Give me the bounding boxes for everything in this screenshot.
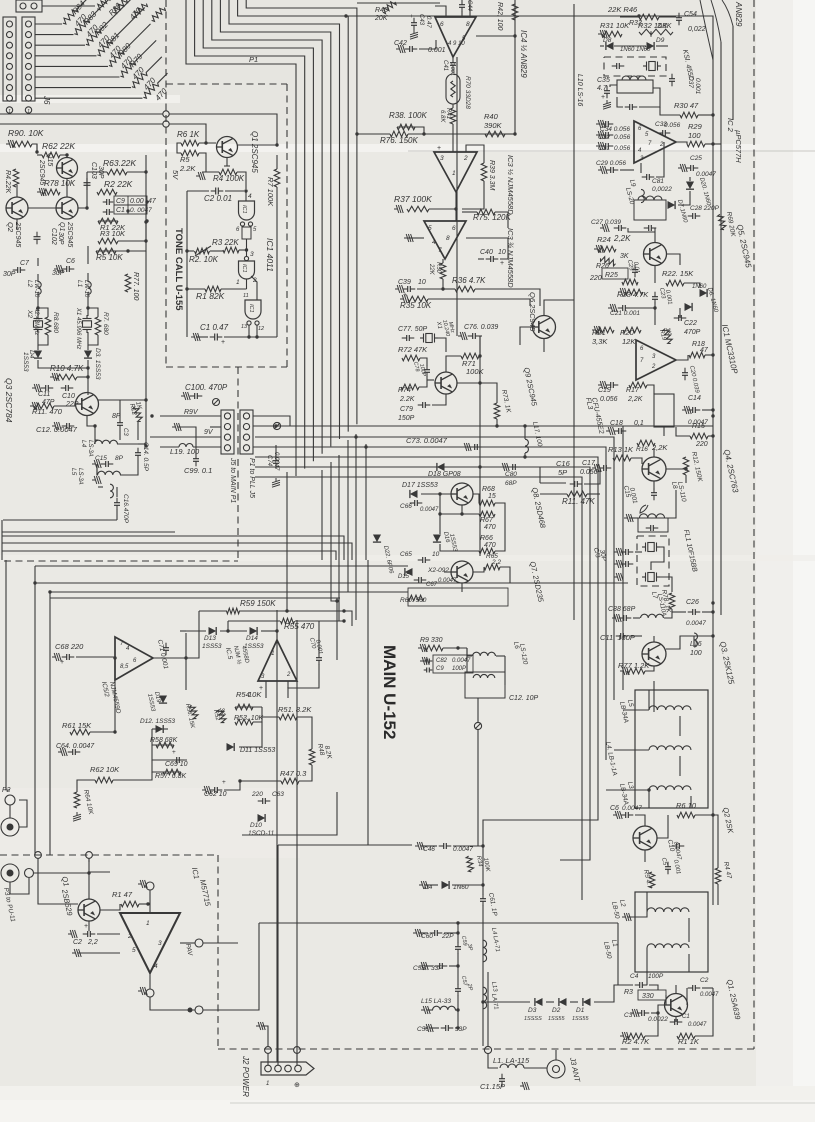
wire osc tank [95,426,98,440]
wire l6b wiring [466,648,468,672]
svg-text:R43: R43 [375,7,388,14]
svg-text:3P: 3P [466,943,473,951]
svg-text:6: 6 [440,21,444,28]
ground R24 [594,245,603,253]
resistor R11 47K [567,491,587,497]
resistor R24 2.2K [598,246,616,252]
ground L15 [421,1006,430,1014]
resistor R7 680 [95,317,101,335]
svg-text:0.056: 0.056 [600,396,618,403]
diode D7b [685,303,693,311]
capacitor C31 0.056 [605,143,607,149]
svg-text:0. 0047: 0. 0047 [130,207,152,214]
connector J6 strip B pin 3 [26,42,32,48]
resistor R5 4.7 [649,872,655,888]
ground C17 [592,464,601,472]
resistor R7 100K vert [274,169,280,187]
ground C13 [614,548,623,556]
svg-text:R30 47: R30 47 [674,101,699,110]
svg-text:R57. 6.8K: R57. 6.8K [155,773,186,780]
connector J6 strip B pin 7 [26,85,32,91]
capacitor C82 box [433,655,473,673]
svg-text:330: 330 [642,993,654,1000]
junction tone left a [185,249,188,252]
svg-text:3: 3 [440,155,444,162]
wire C70 net [318,621,320,654]
ground pa in2 [72,949,81,957]
wire L16 net [666,636,694,649]
ground C100 [181,392,190,400]
ground C1 tone [191,333,200,341]
resistor R13 1K [613,455,631,461]
svg-text:L2: L2 [26,280,33,288]
svg-text:C26: C26 [686,599,699,606]
wire L7 net [630,517,638,519]
svg-text:C22: C22 [684,320,697,327]
svg-text:R50: R50 [435,262,441,274]
wire right bus x721 [720,42,722,615]
svg-text:R3 10K: R3 10K [100,229,126,238]
svg-text:LS-3A: LS-3A [77,468,83,485]
wire center vertical down 6 [365,444,367,560]
wire an829 top nets [396,2,440,4]
resistor R6 1K [181,140,199,146]
capacitor C11 150P [620,633,622,639]
wire L4 net [94,440,96,444]
capacitor C67 0.0047 [418,577,420,583]
capacitor C82 cap [426,659,428,664]
coil box L6b [465,672,505,698]
ground R9 [418,644,427,652]
svg-text:5: 5 [132,947,136,954]
resistor R2 10K pot [195,248,210,254]
junction top bus [344,14,347,17]
resistor R76 150K [390,131,408,137]
ground C29 [598,166,607,174]
svg-text:2.2K: 2.2K [179,164,196,173]
ground L2 tap [622,913,631,921]
capacitor C66 0.0047 [414,500,416,506]
svg-text:D18 GP08: D18 GP08 [428,471,461,478]
diode D4 1SS53 [34,351,42,359]
wire top staircase bus line 7 [238,0,349,432]
ground J2 area [256,1022,265,1030]
svg-text:C1.15P: C1.15P [480,1082,505,1091]
wire audio vert from border circle 1 [37,858,39,880]
wire l9 wiring [620,169,634,171]
svg-text:100: 100 [688,131,701,140]
ground R21 [592,326,601,334]
svg-text:15: 15 [488,493,496,500]
svg-text:0.056: 0.056 [614,145,631,152]
resistor fan 470 #4 [35,55,97,57]
resistor R58 68K [156,742,174,748]
dashed border MAIN unit jog horizontal [4,560,238,562]
wire c56 tap [430,1027,439,1029]
ground C3 [630,1009,639,1017]
svg-text:IC1 4011: IC1 4011 [265,238,275,272]
resistor R40 390K [485,131,505,137]
wire L5 net [97,464,98,475]
svg-text:C100. 470P: C100. 470P [185,383,228,392]
wire d18 net [408,466,432,468]
svg-text:9V: 9V [204,429,214,436]
crystal X1 10.240MHz [420,334,438,343]
svg-text:R9V: R9V [184,409,199,416]
capacitor C39 10 [407,286,409,292]
capacitor C33 0.056 [662,130,664,136]
svg-text:2SC945: 2SC945 [66,221,73,247]
svg-text:0,1: 0,1 [634,420,644,427]
svg-text:R10 4.7K: R10 4.7K [50,364,84,373]
wire p2 link [9,805,11,818]
svg-text:150P: 150P [398,415,415,422]
svg-text:1N60 1N60: 1N60 1N60 [620,47,651,53]
svg-text:10K: 10K [248,690,262,699]
resistor R52 3K diag [217,709,226,722]
connector J5 pin 4 [224,445,230,451]
wire center vertical x515 [514,0,516,134]
svg-text:30P: 30P [57,232,64,245]
svg-text:10: 10 [418,279,426,286]
capacitor C1 0.47 [214,334,216,341]
svg-text:R1 1K: R1 1K [678,1037,700,1046]
capacitor C2 0.01 [215,188,217,195]
svg-text:C2 0.01: C2 0.01 [204,194,232,203]
wire c76 net [480,335,482,337]
ground C46 [415,842,424,850]
resistor R50 22K [440,263,446,279]
ground C60 [413,929,422,937]
wire P1 pin wires [253,416,290,426]
wire d20 net [689,177,691,181]
svg-text:IC4 ½ AN829: IC4 ½ AN829 [519,30,528,78]
svg-text:0.0047: 0.0047 [700,992,719,998]
capacitor C80 68P [512,464,514,470]
transistor Q4 2SC763 [642,457,666,481]
svg-text:Q2: Q2 [6,222,15,233]
resistor R47 0.3 [281,778,299,784]
svg-text:7: 7 [438,247,442,254]
svg-text:C65: C65 [400,551,412,558]
svg-text:1SS55: 1SS55 [572,1016,589,1022]
diode D17 1SS53 [410,490,418,498]
svg-text:L15 LA-33: L15 LA-33 [421,998,451,1005]
connector J6 strip A body [3,17,16,101]
wire ic1 out net [676,355,688,360]
capacitor C70 0.001 [316,657,322,659]
svg-text:C1: C1 [116,207,125,214]
svg-text:TONE CALL U-155: TONE CALL U-155 [173,228,184,311]
svg-text:C46: C46 [423,846,435,853]
diode D12 1SS53 [156,725,164,733]
wire R59 left drop [153,611,199,658]
inductor L19 100 [179,444,193,447]
ground R23 [618,288,627,296]
inductor L4 LS-3A [95,440,118,444]
wire antenna feed vertical [487,972,489,1046]
svg-text:J2 POWER: J2 POWER [241,1055,250,1097]
svg-text:8: 8 [446,235,450,242]
box around C67 area [408,588,508,606]
svg-text:C102: C102 [50,228,57,245]
resistor R3 10K b [98,238,118,244]
wire R6-R5 left link [177,143,181,153]
svg-text:R39 3.3M: R39 3.3M [488,160,495,191]
svg-text:0.0047: 0.0047 [420,507,439,513]
svg-text:R22. 15K: R22. 15K [662,269,694,278]
junction right bus [711,113,714,116]
wire audio bus y598 [50,597,340,599]
ground C88 [612,614,621,622]
svg-text:L1. LA-115: L1. LA-115 [493,1056,530,1065]
resistor R4 22K vert [13,169,19,187]
wire audio long line y923 [259,922,618,924]
capacitor 8P C13 [117,422,123,424]
diode D18 GP08 [437,463,445,471]
ground C12 [52,422,61,430]
svg-text:C2: C2 [700,977,709,984]
svg-text:2,2K: 2,2K [627,396,643,403]
wire IC4a out [476,35,515,37]
svg-text:R40: R40 [484,112,499,121]
svg-text:IC 2: IC 2 [726,118,735,133]
wire gate1b out [246,279,248,289]
connector fragment top edge [16,0,42,12]
capacitor C34 0.056 [605,121,607,127]
svg-text:4: 4 [432,239,436,246]
ground D4 [419,881,428,889]
capacitor disc cap [616,63,618,69]
resistor R54 10K [235,704,253,710]
ground C21 [608,304,617,312]
junction Q1 collector [275,143,278,146]
svg-text:D11 1SS53: D11 1SS53 [240,747,275,754]
connector J6 strip B pin 8 [26,95,32,101]
resistor R68 15 [479,500,495,506]
capacitor C61 1P [480,898,486,900]
svg-text:1SS53: 1SS53 [202,643,222,650]
diode D1 1SS55 [583,998,591,1006]
wire audio bus y592 [50,591,408,593]
resistor R22 15K [666,280,684,286]
svg-text:R63.22K: R63.22K [103,158,136,168]
capacitor C56 33P [445,1025,447,1031]
svg-text:C69 10: C69 10 [165,761,188,768]
connector J6 strip A pin 5 [7,63,13,69]
crystal FL1 xtal 2 [642,573,660,582]
svg-text:L1: L1 [76,280,83,288]
wire mid bus line 5 [255,467,590,860]
junction tone left b [185,287,188,290]
svg-text:2: 2 [651,364,656,370]
wire center vertical to audio section 1 [321,470,323,560]
svg-text:D1: D1 [576,1007,585,1014]
inductor L9 loop [641,189,644,202]
lamp R70 33D28 [446,74,460,104]
ground C43 [410,30,418,39]
svg-text:+: + [222,779,226,786]
resistor R9 330 [425,645,443,651]
svg-text:470: 470 [484,542,496,549]
transistor Q1 2SB529 [78,899,100,921]
capacitor C77 50P [406,335,408,341]
wire center vertical x480 [479,336,481,556]
wire C68 link [76,656,115,658]
inductor L16 100 [694,633,698,647]
svg-text:1: 1 [146,920,150,927]
connector J2 POWER body [261,1062,314,1075]
svg-text:R5 10K: R5 10K [96,253,123,262]
connector J5 pin 2 [224,424,230,430]
svg-text:C7: C7 [20,260,30,267]
gate1a stem [242,227,251,239]
connector J6 strip B pin 2 [26,32,32,38]
svg-text:IC3 ¾ NJM4558D: IC3 ¾ NJM4558D [506,228,515,288]
resistor R62 22K [42,152,60,158]
wire R36 net [417,288,443,290]
svg-text:D10: D10 [250,822,262,829]
svg-text:D9: D9 [656,37,665,44]
resistor R62 10K [95,777,113,783]
wire mid bus line 2 [255,437,614,700]
svg-text:R58 68K: R58 68K [150,737,178,744]
junction mid bus b [364,445,367,448]
svg-text:0.056: 0.056 [614,134,631,141]
wire q8 nets [462,505,479,514]
resistor R23 4.7K [625,289,643,295]
wire pin3 drop [265,681,267,698]
wire curved bus top right [700,0,713,60]
wire y835 link [242,792,337,835]
wire R1 links [187,288,205,290]
op-amp IC1 M57715 [120,913,180,973]
svg-text:4.7: 4.7 [597,85,608,92]
wire r46 net [638,16,640,18]
dashed border MAIN unit left horizontal [0,854,218,856]
jack P2 [1,818,19,836]
capacitor C57 2P [455,988,461,990]
resistor R32 10K [650,31,652,37]
wire C40 net [478,258,484,260]
wire l6 link [467,648,472,656]
svg-text:L4: L4 [80,440,87,448]
svg-text:0.001: 0.001 [428,47,446,54]
resistor R1 47 pa [121,901,139,907]
svg-text:1SS55: 1SS55 [548,1016,565,1022]
capacitor C13b [625,561,627,567]
wire L17 net [524,426,526,439]
wire antenna feed 2 [488,1054,498,1068]
transistor Q3 2SC784 circle [76,393,99,416]
wire left cluster nets [36,144,38,152]
ground C64 [58,748,67,756]
ground C13b [614,560,623,568]
ground R37 [394,205,403,213]
junction R10 [86,375,89,378]
wire misc conn [178,427,196,455]
op-amp IC5b NJM4558D [258,640,297,681]
junction IC3a out [454,207,457,210]
capacitor C99 0.1 [193,458,199,460]
svg-text:C81: C81 [652,178,664,185]
transistor Q9 2SC945 circle [435,372,457,394]
svg-text:2: 2 [463,155,468,162]
capacitor C71 0.001 [163,647,169,649]
wire mid bus line 6 [255,477,582,900]
diode D14 1SS53 [250,627,258,635]
svg-text:C14: C14 [688,395,701,402]
svg-text:220: 220 [589,275,602,282]
svg-text:0.0047: 0.0047 [452,658,471,664]
terminal pa bottom [146,989,154,997]
dashed border MAIN unit left vertical [217,855,219,1049]
wire audio left vertical 1 [34,566,36,855]
capacitor C10 22P [65,385,67,391]
svg-text:22K: 22K [428,263,434,276]
capacitor C54 0.022 [676,17,682,19]
svg-text:C16.470P: C16.470P [122,494,129,524]
svg-text:R6 10: R6 10 [676,801,697,810]
resistor R74 2.2K [401,384,419,390]
svg-text:470: 470 [484,524,496,531]
resistor R18 47 [689,352,705,358]
wire top staircase bus line 1 [186,0,296,476]
ground C39 [395,285,404,293]
svg-text:D13: D13 [204,635,216,642]
svg-text:C4: C4 [630,973,639,980]
inductor L7 tank coil [639,514,664,518]
capacitor C28 220P [692,213,694,219]
ground C34 [596,120,605,128]
wire R63 net [87,171,107,173]
capacitor C88 68P [623,615,625,621]
wire long horizontal y543 [2,543,352,560]
transistor Q2 2SC945 left [6,197,28,219]
svg-text:C82: C82 [436,658,448,664]
svg-text:MAIN U-152: MAIN U-152 [380,645,399,739]
svg-text:R55 470: R55 470 [284,622,315,631]
wire c58 tap [425,965,433,967]
op-amp IC3a NJM4558D [434,152,477,192]
wire q3 nets [630,635,642,637]
svg-text:IC1: IC1 [248,304,254,313]
svg-text:R62 10K: R62 10K [90,765,120,774]
ground C35 [603,100,611,109]
svg-text:C6: C6 [66,258,75,265]
junction right bus 2 [711,414,714,417]
svg-text:13: 13 [241,324,248,330]
svg-text:P1: P1 [249,55,258,64]
wire R40 net [457,133,485,135]
connector J6 strip B pin 4 [26,53,32,59]
resistor R2 22K main [97,189,117,195]
svg-text:D3. 1SS53: D3. 1SS53 [94,348,101,380]
wire pa out right [180,942,195,944]
connector P1 pin 1 [243,413,249,419]
wire audio bus y583 [35,582,628,584]
terminal pa out low [195,1006,203,1014]
wire R30 net [660,107,680,115]
svg-text:C62 10: C62 10 [204,791,227,798]
resistor R63 22K [107,169,127,175]
resistor R48 8.2K vert [309,749,315,765]
svg-text:47: 47 [700,347,709,354]
wire q3 collector [98,399,146,401]
capacitor L10 bottom cap [629,104,631,110]
resistor fan 470 #5 [35,65,108,67]
wire J2 wiring [262,1026,268,1047]
